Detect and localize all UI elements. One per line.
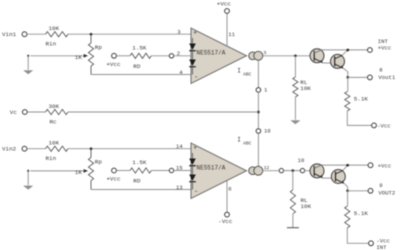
wire bias — [257, 92, 259, 129]
power +Vcc pin11 — [217, 0, 232, 46]
node junction collectors 2 — [346, 164, 349, 167]
label I_ABC 1 — [237, 68, 251, 78]
diode D1 — [189, 38, 196, 51]
transistor Q1 — [310, 49, 324, 63]
wire emitter Q1 to Q2 base — [323, 62, 335, 64]
ground — [291, 121, 300, 125]
svg-text:Rp: Rp — [95, 44, 103, 51]
terminal Vin2 — [22, 146, 27, 151]
ground — [27, 56, 29, 70]
terminal Vout1 pin 8 — [368, 67, 396, 81]
svg-text:Vc: Vc — [10, 109, 18, 116]
svg-text:Rin: Rin — [46, 41, 57, 48]
svg-text:-Vcc: -Vcc — [377, 123, 390, 130]
svg-text:VOUT2: VOUT2 — [378, 189, 395, 196]
current source CS2 output — [249, 167, 257, 175]
wire bias — [257, 133, 259, 166]
svg-text:1K: 1K — [75, 169, 83, 176]
wire — [305, 170, 315, 172]
terminal pin 16 — [256, 129, 261, 134]
svg-text:13: 13 — [176, 184, 183, 191]
resistor RL1 10K — [293, 56, 312, 120]
svg-text:+: + — [193, 144, 197, 151]
svg-text:5: 5 — [264, 50, 267, 56]
terminal +Vcc bias2 — [112, 168, 117, 173]
svg-text:10K: 10K — [301, 203, 312, 210]
wire collector Q3 — [314, 165, 368, 168]
terminal pin 2 — [169, 54, 173, 58]
wire collector Q2 — [343, 50, 348, 55]
resistor RD1 1.5K — [130, 44, 151, 70]
svg-text:-Vcc: -Vcc — [218, 218, 233, 225]
svg-text:16: 16 — [264, 127, 271, 134]
svg-text:+: + — [193, 30, 197, 37]
svg-text:RD: RD — [133, 178, 141, 185]
potentiometer Rp2 1K — [31, 149, 103, 190]
ground — [27, 171, 29, 185]
wire pin15 — [174, 170, 193, 172]
resistor R2 5.1K — [345, 191, 369, 244]
wire emitter Q2 — [343, 68, 347, 77]
terminal Vc — [22, 110, 27, 115]
resistor R1 5.1K — [345, 77, 372, 125]
wire emitter Q3 to Q4 base — [323, 177, 336, 179]
svg-text:+Vcc: +Vcc — [378, 162, 391, 169]
terminal -Vcc INT — [369, 238, 390, 250]
diode D4 — [189, 166, 196, 190]
wire — [116, 55, 130, 57]
svg-text:Vin2: Vin2 — [2, 146, 17, 153]
svg-text:I: I — [237, 137, 241, 144]
svg-text:8: 8 — [379, 67, 382, 74]
wire pin2 — [174, 55, 193, 57]
svg-text:NE5517/A: NE5517/A — [197, 50, 226, 57]
node junction Vin1/Rp — [90, 33, 93, 36]
resistor Rin1 10K — [46, 25, 69, 47]
svg-text:1K: 1K — [75, 54, 83, 61]
diode D3 — [189, 153, 196, 166]
svg-text:NE5517/A: NE5517/A — [197, 164, 226, 171]
transistor Q4 — [331, 170, 345, 184]
svg-text:ABC: ABC — [243, 140, 252, 146]
wire — [348, 190, 369, 192]
terminal pin 15 — [169, 168, 173, 172]
node junction wiper2 — [27, 170, 29, 172]
svg-text:-: - — [194, 189, 198, 197]
terminal VOUT2 pin 9 — [368, 182, 395, 196]
svg-text:14: 14 — [176, 143, 183, 150]
terminal pin 12 — [279, 168, 283, 172]
svg-text:RD: RD — [133, 63, 141, 70]
svg-text:3: 3 — [177, 29, 180, 36]
svg-text:+Vcc: +Vcc — [106, 61, 121, 68]
transistor Q3 — [310, 164, 324, 178]
wire — [27, 111, 45, 113]
transistor Q2 — [331, 54, 345, 68]
resistor Rc 30K — [46, 103, 69, 126]
wire — [68, 111, 258, 113]
node junction wiper — [27, 55, 29, 57]
wire bias — [257, 60, 259, 87]
wire output2 — [263, 170, 279, 172]
resistor RL2 10K — [290, 171, 311, 228]
node junction out1/RL1 — [294, 54, 297, 57]
wire — [151, 170, 169, 172]
svg-text:12: 12 — [264, 165, 270, 171]
label I_ABC 2 — [237, 137, 251, 147]
wire collector Q4 — [343, 165, 347, 170]
node junction out2/RL2 — [291, 169, 294, 172]
terminal pin 1 — [256, 88, 261, 93]
wire — [68, 33, 191, 35]
resistor RD2 1.5K — [130, 159, 151, 185]
wire emitter Q4 — [344, 183, 347, 191]
wire pin4 — [91, 74, 191, 76]
op-amp U1a NE5517/A — [191, 28, 247, 84]
node junction Rc/bias — [257, 111, 260, 114]
wire — [348, 76, 368, 78]
svg-text:I: I — [237, 68, 241, 75]
wire — [284, 170, 301, 172]
svg-text:10K: 10K — [49, 140, 60, 147]
ground — [287, 227, 299, 229]
wire — [27, 33, 46, 35]
current source CS1 output — [249, 52, 257, 60]
svg-text:11: 11 — [228, 31, 235, 38]
potentiometer Rp1 1K — [31, 34, 103, 74]
svg-text:INT: INT — [376, 244, 387, 250]
terminal pin 10 — [300, 168, 304, 172]
node junction Vout2 — [346, 189, 349, 192]
svg-text:1.5K: 1.5K — [132, 159, 147, 166]
svg-text:10: 10 — [298, 157, 305, 164]
svg-text:5.1K: 5.1K — [354, 96, 369, 103]
svg-text:+Vcc: +Vcc — [378, 44, 391, 51]
svg-text:10K: 10K — [300, 85, 311, 92]
svg-text:Vin1: Vin1 — [2, 31, 17, 38]
svg-text:-: - — [194, 74, 198, 82]
resistor Rin2 10K — [46, 140, 69, 162]
terminal +Vcc out2 — [368, 162, 391, 169]
wire output1 — [263, 55, 314, 57]
op-amp U1b NE5517/A — [191, 143, 247, 199]
svg-text:Rc: Rc — [50, 118, 58, 125]
svg-text:Rp: Rp — [95, 159, 103, 166]
svg-text:+Vcc: +Vcc — [106, 176, 121, 183]
svg-text:Vout1: Vout1 — [378, 74, 395, 81]
node junction Vin2/Rp — [90, 147, 93, 150]
svg-text:+Vcc: +Vcc — [217, 0, 232, 7]
terminal -Vcc out1 — [372, 123, 391, 130]
terminal +Vcc bias1 — [112, 53, 117, 58]
terminal INT +Vcc — [368, 38, 392, 52]
svg-text:9: 9 — [379, 182, 382, 189]
svg-text:Rin: Rin — [46, 155, 57, 162]
wire — [116, 170, 130, 172]
svg-text:1.5K: 1.5K — [132, 44, 147, 51]
wire — [151, 55, 169, 57]
node junction collectors — [346, 49, 349, 52]
svg-text:5.1K: 5.1K — [354, 210, 369, 217]
terminal Vin1 — [22, 32, 27, 37]
wire — [68, 148, 191, 150]
svg-text:30K: 30K — [49, 103, 60, 110]
node junction Vout1 — [346, 76, 349, 79]
svg-text:6: 6 — [228, 186, 231, 193]
svg-text:10K: 10K — [49, 25, 60, 32]
wire collector Q1 — [314, 50, 367, 53]
wire pin13 — [91, 189, 191, 191]
wire — [27, 148, 46, 150]
power -Vcc pin6 — [218, 181, 233, 225]
diode D2 — [189, 51, 196, 75]
svg-text:ABC: ABC — [243, 71, 252, 77]
